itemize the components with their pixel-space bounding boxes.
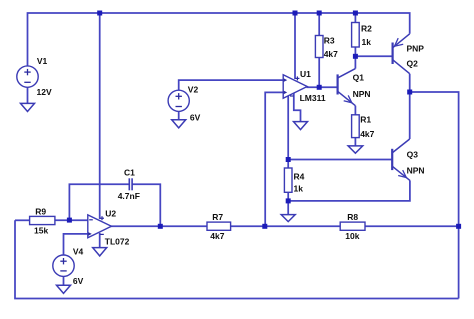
wire V2 bottom (178, 111, 180, 119)
node R4 bottom (286, 198, 291, 203)
wire U2 supply drop (99, 13, 101, 219)
wire node to Q3 base (288, 159, 392, 161)
svg-text:6V: 6V (190, 113, 201, 123)
svg-text:12V: 12V (37, 87, 52, 97)
svg-text:U1: U1 (300, 69, 311, 79)
svg-text:NPN: NPN (353, 89, 371, 99)
svg-text:4k7: 4k7 (210, 231, 224, 241)
resistor R1 (352, 115, 375, 139)
svg-text:V4: V4 (73, 246, 84, 256)
svg-text:R7: R7 (212, 212, 223, 222)
svg-text:C1: C1 (124, 168, 135, 178)
ground below V2 (172, 120, 186, 128)
transistor Q3 (392, 139, 424, 180)
transistor Q1 (338, 69, 371, 106)
wire R2 stubs (354, 13, 356, 23)
svg-text:Q1: Q1 (353, 72, 365, 82)
wire R9 to U2 input (55, 219, 88, 221)
node collector tap (407, 90, 412, 95)
wire top rail (28, 13, 410, 66)
wire U1 supply drop (294, 13, 296, 79)
node R3 bottom output (317, 85, 322, 90)
wire U1 gnd pin to node (287, 96, 289, 160)
node R8 right rail (456, 224, 461, 229)
node top rail / U1 supply (293, 11, 298, 16)
wire U2 Vminus stub (99, 233, 101, 248)
svg-text:4k7: 4k7 (360, 129, 374, 139)
ground below U1 (294, 122, 308, 130)
wire U1 minus input drop (265, 92, 283, 226)
svg-text:V1: V1 (37, 56, 48, 66)
svg-text:V2: V2 (188, 85, 199, 95)
wire V2 to U1 plus input (179, 80, 284, 90)
svg-text:1k: 1k (294, 183, 304, 193)
wire Q1 collector vertical (354, 56, 356, 68)
svg-text:PNP: PNP (407, 43, 425, 53)
wire left rail and bottom rail (15, 220, 459, 298)
svg-text:6V: 6V (73, 276, 84, 286)
wire R9 left (15, 219, 30, 221)
resistor R3 (315, 36, 338, 59)
wire Q3 emitter return (288, 180, 410, 201)
svg-text:R8: R8 (347, 212, 358, 222)
wire Q2 collector to Q3 collector (409, 74, 411, 139)
node R4 top (286, 157, 291, 162)
ground below V1 (21, 103, 35, 111)
svg-text:1k: 1k (362, 37, 372, 47)
wire U1 Vminus jog to ground (294, 93, 301, 122)
wire R4 stubs (287, 160, 289, 169)
wire Q2 base (355, 55, 392, 57)
node C1 output (158, 224, 163, 229)
node R2 bottom Q2 base (353, 54, 358, 59)
ground below R1 (348, 146, 363, 153)
node top rail / R3 (317, 11, 322, 16)
svg-text:NPN: NPN (407, 166, 425, 176)
wire V4 to U2 plus input (64, 234, 88, 255)
node U1 minus leg (262, 224, 267, 229)
node top rail / R2 (353, 11, 358, 16)
svg-text:R2: R2 (361, 24, 372, 34)
voltage source V2 (168, 85, 201, 123)
svg-text:Q2: Q2 (407, 58, 419, 68)
svg-text:R1: R1 (360, 115, 371, 125)
wire C1 feedback left (69, 184, 128, 220)
wire U2 output to R7 (111, 225, 208, 227)
resistor R9 (30, 207, 55, 236)
svg-text:LM311: LM311 (300, 93, 326, 103)
svg-text:15k: 15k (34, 226, 48, 236)
svg-text:R3: R3 (324, 36, 335, 46)
resistor R7 (207, 212, 231, 241)
ground below U2 (93, 248, 107, 256)
svg-text:4.7nF: 4.7nF (118, 191, 140, 201)
wire R8 to right rail (365, 225, 459, 227)
wire V1 bottom (27, 87, 29, 103)
wire R3 stubs (318, 13, 320, 36)
node top rail / U2 supply (97, 11, 102, 16)
wire R7 to R8 (231, 225, 341, 227)
wire Q1 emitter to R1 (354, 106, 356, 115)
svg-text:R4: R4 (294, 171, 305, 181)
svg-text:10k: 10k (345, 231, 359, 241)
op-amp U2 TL072 (88, 209, 130, 247)
svg-text:U2: U2 (105, 209, 116, 219)
wire V4 bottom (63, 276, 65, 285)
capacitor C1 (118, 168, 140, 201)
wire collector tap to right rail (410, 92, 459, 299)
wire C1 right leg (132, 184, 160, 226)
svg-text:4k7: 4k7 (324, 49, 338, 59)
svg-text:Q3: Q3 (407, 150, 419, 160)
op-amp U1 LM311 (283, 69, 326, 103)
svg-text:TL072: TL072 (105, 237, 130, 247)
wire R1 bottom (354, 138, 356, 146)
resistor R4 (284, 168, 304, 193)
ground below R4 (281, 215, 295, 222)
wire U1 output (307, 86, 338, 88)
resistor R8 (340, 212, 365, 241)
voltage source V4 (53, 246, 84, 285)
ground below V4 (57, 285, 71, 293)
transistor Q2 (393, 34, 425, 74)
node R9 feedback (67, 218, 72, 223)
svg-text:R9: R9 (35, 207, 46, 217)
resistor R2 (352, 23, 373, 48)
voltage source V1 (17, 56, 52, 97)
